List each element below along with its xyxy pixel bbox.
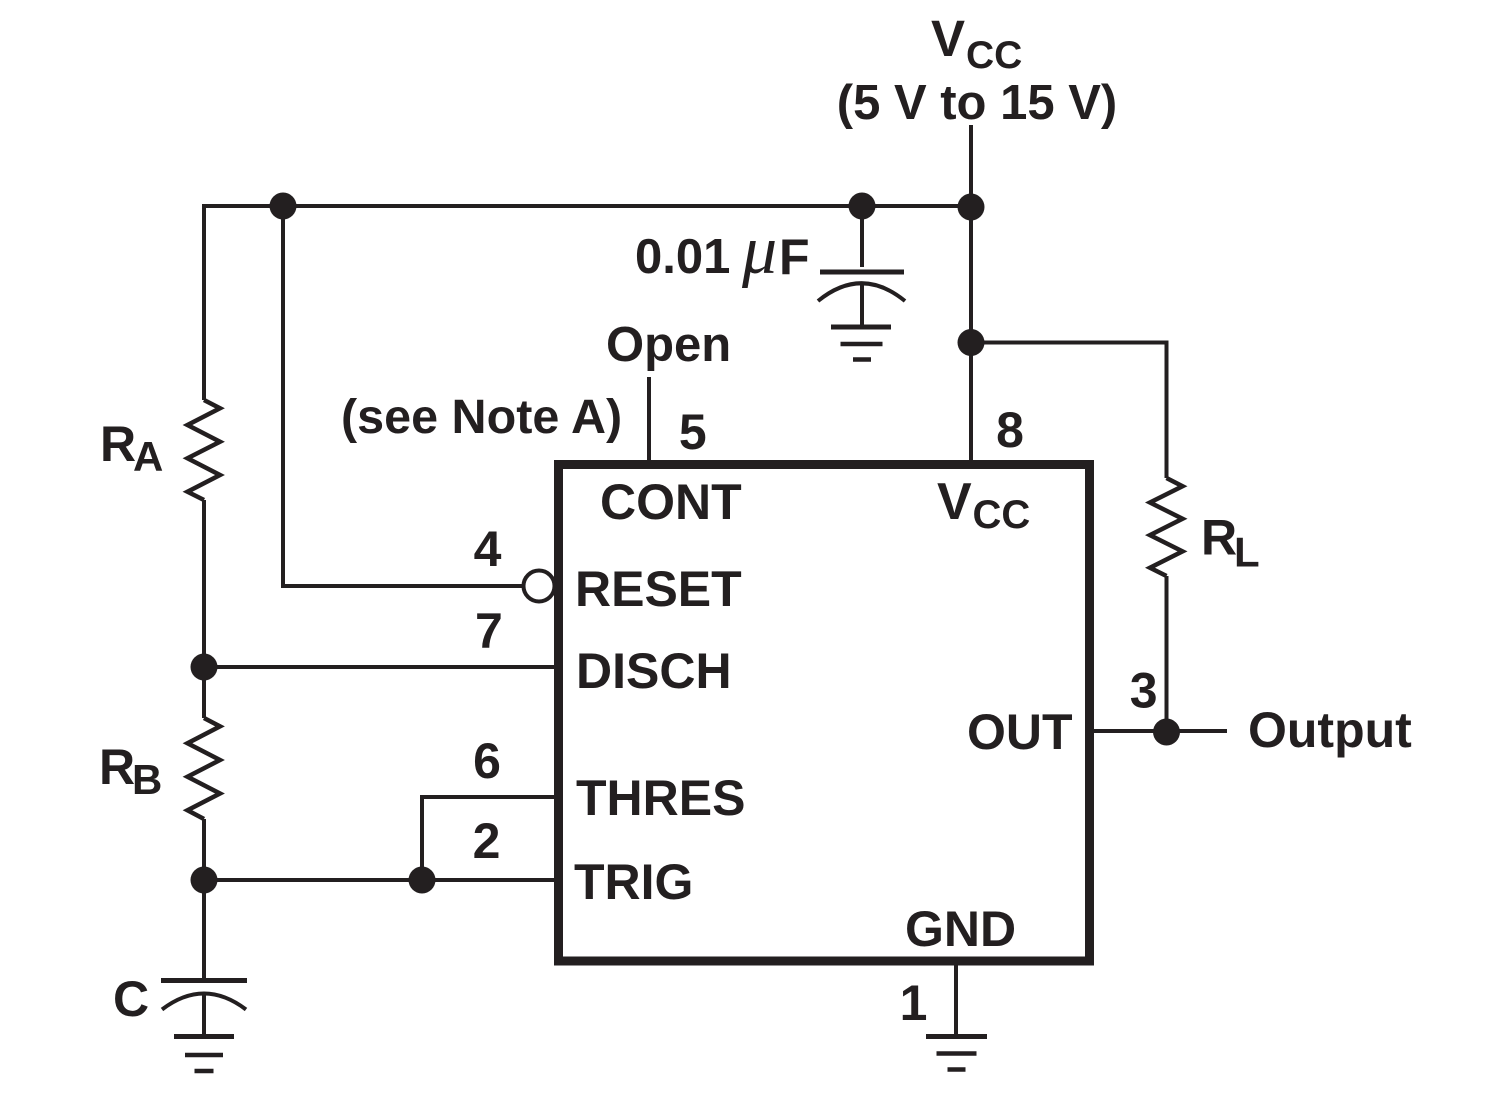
node junction DISCH	[191, 654, 218, 681]
svg-text:6: 6	[473, 733, 501, 789]
svg-text:TRIG: TRIG	[574, 854, 693, 910]
node junction VCC rail	[958, 194, 985, 221]
wire VCC stem	[969, 125, 973, 464]
svg-text:CC: CC	[966, 34, 1022, 77]
wire THRES pin 6	[422, 797, 558, 880]
capacitor 0.01 uF top plate	[820, 270, 904, 275]
ground (bypass cap)	[831, 325, 891, 330]
resistor RL	[1150, 478, 1183, 576]
svg-text:L: L	[1234, 529, 1260, 576]
wire RL to OUT node	[1165, 576, 1169, 731]
wire bypass cap lead	[860, 206, 864, 267]
svg-text:CONT: CONT	[600, 474, 742, 530]
svg-text:8: 8	[996, 402, 1024, 458]
wire RA to DISCH node to RB	[202, 500, 206, 718]
svg-text:V: V	[931, 10, 965, 67]
svg-text:(5 V to 15 V): (5 V to 15 V)	[837, 76, 1117, 130]
svg-text:C: C	[113, 971, 149, 1027]
wire cap to ground	[860, 285, 864, 329]
node junction top-left reset branch	[270, 193, 297, 220]
wire GND stem	[954, 965, 958, 1037]
svg-text:GND: GND	[905, 901, 1016, 957]
node junction OUT	[1153, 719, 1180, 746]
svg-text:R: R	[99, 739, 135, 795]
wire DISCH pin 7	[204, 665, 558, 669]
svg-text:4: 4	[474, 521, 502, 577]
resistor RA	[188, 400, 221, 500]
wire branch VCC to RL	[969, 343, 1167, 479]
svg-text:THRES: THRES	[576, 770, 745, 826]
svg-text:A: A	[133, 433, 163, 480]
wire RESET branch	[283, 206, 523, 586]
svg-text:F: F	[779, 229, 810, 285]
resistor RB	[188, 718, 221, 819]
svg-text:Open: Open	[606, 318, 731, 372]
svg-text:CC: CC	[973, 493, 1031, 537]
capacitor C top plate	[161, 978, 247, 983]
svg-text:R: R	[100, 416, 136, 472]
svg-text:R: R	[1201, 510, 1237, 566]
wire left drop to RA	[202, 204, 206, 400]
wire RB to TRIG node to capacitor C	[202, 819, 206, 980]
svg-text:B: B	[132, 756, 162, 803]
svg-text:1: 1	[900, 975, 928, 1031]
svg-text:2: 2	[473, 813, 501, 869]
svg-text:0.01: 0.01	[635, 230, 730, 284]
svg-text:V: V	[937, 473, 972, 531]
reset inversion bubble pin 4	[524, 571, 555, 602]
node junction TRIG left	[191, 867, 218, 894]
svg-text:5: 5	[679, 404, 707, 460]
IC U1 555 timer body	[559, 465, 1090, 962]
svg-text:RESET: RESET	[575, 561, 742, 617]
svg-text:(see Note A): (see Note A)	[341, 390, 622, 444]
svg-text:OUT: OUT	[967, 704, 1073, 760]
svg-text:μ: μ	[741, 212, 777, 289]
svg-text:DISCH: DISCH	[576, 643, 732, 699]
wire top rail VCC	[204, 204, 971, 208]
node junction bypass cap	[849, 193, 876, 220]
svg-text:3: 3	[1130, 663, 1158, 719]
wire CONT stem from Open	[647, 377, 651, 464]
wire OUT pin 3	[1090, 729, 1227, 733]
wire C to ground	[202, 994, 206, 1037]
capacitor 0.01 uF curved plate	[818, 283, 905, 301]
svg-text:Output: Output	[1248, 702, 1412, 758]
node junction THRES/TRIG	[409, 867, 436, 894]
ground (GND pin 1)	[926, 1034, 987, 1039]
capacitor C curved plate	[162, 994, 246, 1010]
svg-text:7: 7	[475, 603, 503, 659]
ground (capacitor C)	[174, 1034, 234, 1039]
wire TRIG pin 2	[204, 878, 558, 882]
node junction RL branch	[958, 329, 985, 356]
